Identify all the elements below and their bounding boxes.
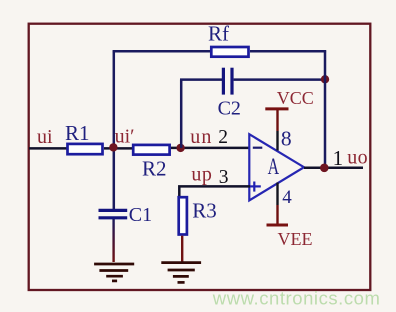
wire Rf right horizontal	[250, 50, 326, 53]
pin 4 wire (VEE)	[276, 183, 278, 206]
wire input ui	[29, 147, 67, 150]
node un	[176, 144, 184, 152]
wire vertical from Rf down through node ui' to C1	[113, 50, 116, 209]
pin 8 wire (VCC)	[276, 110, 278, 132]
wire R3 to ground	[181, 236, 183, 262]
op-amp minus symbol	[253, 147, 262, 149]
op-amp U1 (A)	[249, 134, 304, 200]
VEE supply bar	[267, 224, 289, 227]
node ui'	[109, 143, 117, 151]
svg-text:VEE: VEE	[278, 229, 313, 249]
wire R2 to op-amp inverting input	[171, 147, 250, 150]
resistor Rf	[211, 47, 248, 57]
svg-text:ui′: ui′	[115, 126, 135, 148]
wire R1 to R2	[104, 147, 132, 150]
wire Rf left horizontal	[113, 50, 210, 53]
svg-text:1: 1	[333, 146, 344, 170]
resistor R1	[68, 144, 103, 154]
border frame (decorative)	[29, 24, 371, 290]
resistor R2	[133, 145, 169, 155]
svg-text:2: 2	[218, 127, 228, 148]
svg-text:R1: R1	[65, 121, 90, 145]
capacitor C1	[99, 210, 128, 217]
svg-text:VCC: VCC	[277, 88, 314, 108]
capacitor C2	[223, 68, 232, 95]
svg-text:A: A	[268, 154, 280, 179]
wire C1 to ground	[112, 219, 114, 262]
wire C2 left horizontal	[180, 78, 222, 81]
node output	[320, 164, 329, 173]
ground (R3)	[161, 263, 201, 283]
resistor R3	[179, 197, 187, 234]
svg-text:3: 3	[219, 167, 229, 188]
svg-text:www.cntronics.com: www.cntronics.com	[212, 288, 381, 309]
wire feedback vertical to output node	[324, 50, 327, 168]
wire un vertical up to C2 branch	[180, 80, 183, 148]
svg-text:uo: uo	[347, 146, 368, 168]
svg-text:un: un	[190, 126, 212, 148]
svg-text:up: up	[191, 163, 212, 185]
svg-text:C1: C1	[129, 204, 152, 226]
svg-text:R2: R2	[142, 156, 167, 180]
svg-text:4: 4	[282, 187, 292, 208]
ground (C1)	[94, 264, 134, 281]
svg-text:ui: ui	[37, 126, 53, 148]
wire C2 right horizontal to output branch	[234, 78, 326, 81]
node C2/feedback junction	[321, 75, 329, 83]
op-amp plus symbol	[249, 182, 261, 192]
VCC supply bar	[265, 107, 288, 110]
svg-text:C2: C2	[218, 98, 241, 120]
wire output	[304, 166, 363, 169]
wire up (non-inverting input)	[179, 186, 250, 196]
svg-text:8: 8	[281, 126, 292, 150]
svg-text:Rf: Rf	[208, 22, 229, 46]
svg-text:R3: R3	[192, 199, 217, 223]
